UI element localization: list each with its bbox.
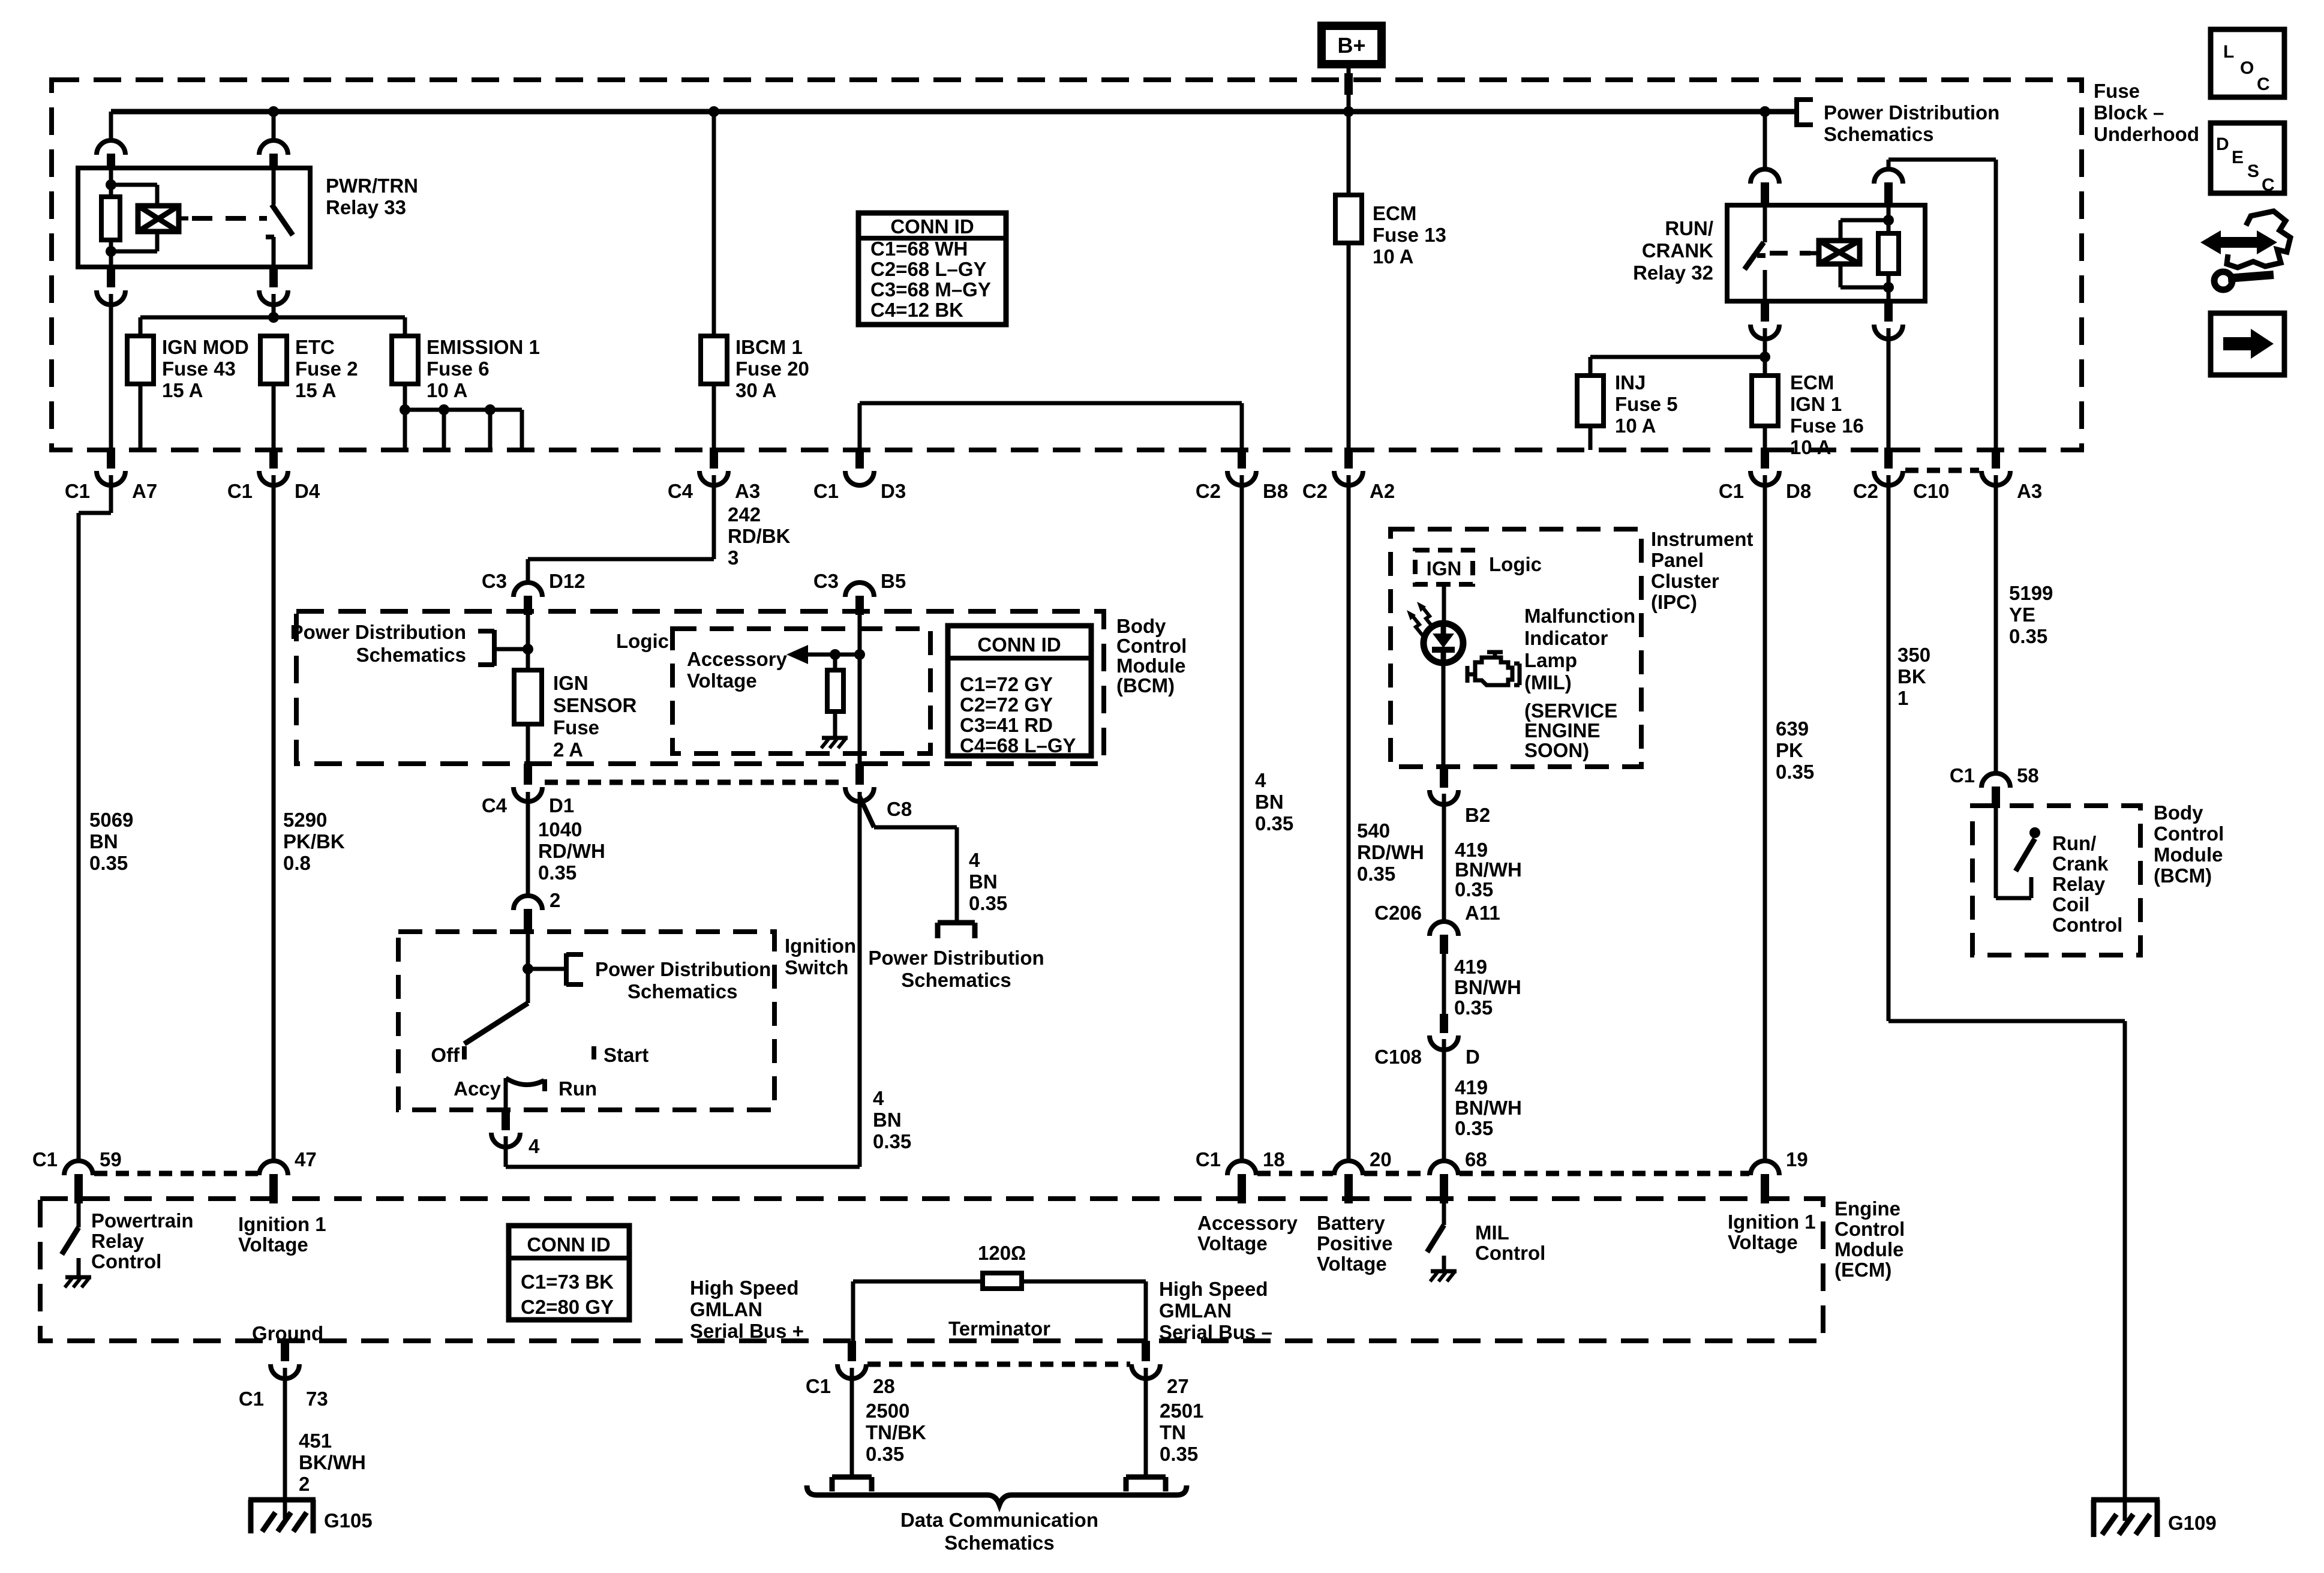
svg-text:C1=72 GY: C1=72 GY	[960, 673, 1053, 695]
wire 2501 TN 0.35	[1144, 1368, 1148, 1476]
svg-text:CONN ID: CONN ID	[527, 1233, 610, 1256]
svg-text:Power Distribution: Power Distribution	[1824, 101, 1999, 124]
svg-text:Fuse 5: Fuse 5	[1615, 393, 1678, 415]
svg-text:Schematics: Schematics	[356, 644, 466, 666]
body control module dashed box	[296, 611, 1104, 764]
svg-text:2501: 2501	[1160, 1400, 1203, 1422]
svg-text:C3: C3	[482, 570, 507, 592]
svg-text:Power Distribution: Power Distribution	[595, 958, 771, 980]
svg-text:Schematics: Schematics	[901, 969, 1011, 991]
fuse IGN MOD Fuse 43	[139, 317, 143, 336]
svg-text:2: 2	[550, 889, 560, 911]
svg-text:D3: D3	[881, 480, 906, 502]
wire relay33 coil leg upper	[109, 168, 113, 197]
svg-text:Run: Run	[559, 1077, 597, 1100]
wire D8 to ECM 19 (639 PK)	[1763, 475, 1767, 1161]
svg-text:(ECM): (ECM)	[1834, 1259, 1891, 1281]
connector C2/A2	[1344, 448, 1353, 469]
svg-text:A2: A2	[1370, 480, 1395, 502]
connector ECM 47	[272, 1161, 276, 1162]
svg-text:C1: C1	[1196, 1148, 1221, 1170]
svg-text:Voltage: Voltage	[1728, 1231, 1798, 1253]
svg-text:BN: BN	[873, 1109, 902, 1131]
connector C2/C10	[1884, 448, 1893, 469]
fuse EMISSION 1 Fuse 6	[403, 317, 407, 336]
wire comb drops	[403, 410, 407, 450]
svg-text:S: S	[2247, 161, 2259, 181]
svg-text:Accessory: Accessory	[687, 648, 788, 670]
svg-text:GMLAN: GMLAN	[1159, 1299, 1232, 1322]
svg-text:0.35: 0.35	[1455, 1117, 1493, 1139]
svg-text:Ignition: Ignition	[785, 935, 856, 957]
svg-text:Control: Control	[91, 1250, 161, 1272]
connector ECM C1/18	[1240, 1161, 1244, 1162]
svg-text:0.35: 0.35	[1357, 863, 1395, 885]
svg-text:(BCM): (BCM)	[1116, 674, 1175, 697]
svg-text:30 A: 30 A	[735, 379, 776, 401]
svg-text:BN: BN	[89, 830, 118, 852]
wire relay33 coil leg lower	[109, 240, 113, 267]
svg-text:C4=68 L–GY: C4=68 L–GY	[960, 734, 1076, 757]
connector row dots ECM right	[1257, 1171, 1333, 1176]
svg-text:CRANK: CRANK	[1642, 239, 1713, 262]
off-page pointer Power Distribution Schematics (bus)	[1794, 97, 1799, 127]
switch run/crank coil driver	[1994, 808, 1998, 898]
contact Start tick	[591, 1046, 596, 1059]
svg-text:0.35: 0.35	[538, 861, 577, 884]
connector C3/B5	[845, 583, 874, 597]
svg-text:Control: Control	[2154, 822, 2224, 845]
svg-text:C1: C1	[65, 480, 90, 502]
wire 451 BK/WH 2	[283, 1368, 287, 1499]
svg-text:B+: B+	[1337, 33, 1365, 58]
svg-text:Relay: Relay	[91, 1230, 145, 1252]
connector relay32 bottom-left	[1761, 301, 1769, 322]
svg-text:Relay 32: Relay 32	[1633, 262, 1713, 284]
fuse IGN SENSOR Fuse 2A	[514, 670, 542, 724]
node B5 wire junction	[854, 649, 865, 660]
svg-text:0.35: 0.35	[89, 852, 128, 874]
connector ECM 19	[1763, 1161, 1767, 1162]
svg-text:2: 2	[299, 1473, 310, 1495]
ground powertrain relay driver	[77, 1258, 81, 1276]
svg-text:Lamp: Lamp	[1524, 649, 1577, 671]
svg-text:1: 1	[1897, 687, 1908, 709]
svg-text:L: L	[2223, 42, 2234, 62]
svg-text:C206: C206	[1374, 902, 1422, 924]
svg-text:C1: C1	[806, 1375, 831, 1397]
ground G105	[248, 1497, 316, 1503]
svg-text:Fuse 13: Fuse 13	[1373, 224, 1446, 246]
svg-text:C1: C1	[1950, 764, 1975, 786]
wire IGN SENSOR feed	[526, 615, 530, 670]
svg-text:ETC: ETC	[295, 336, 335, 358]
svg-text:YE: YE	[2009, 604, 2035, 626]
resistor BCM logic pull	[833, 655, 837, 670]
svg-text:Serial Bus +: Serial Bus +	[690, 1320, 804, 1342]
connector C1/D3	[855, 448, 864, 469]
svg-text:0.35: 0.35	[1454, 996, 1493, 1019]
engine icon (MIL)	[1475, 658, 1512, 685]
svg-text:C4: C4	[482, 794, 508, 816]
svg-text:Powertrain: Powertrain	[91, 1209, 194, 1232]
svg-text:A11: A11	[1465, 902, 1500, 924]
svg-text:Control: Control	[1116, 635, 1187, 657]
svg-text:Logic: Logic	[1489, 553, 1542, 575]
stub B+ border crossing	[1344, 73, 1353, 95]
svg-text:Schematics: Schematics	[1824, 123, 1933, 145]
svg-text:0.35: 0.35	[2009, 625, 2047, 647]
svg-text:CONN ID: CONN ID	[890, 215, 974, 238]
svg-text:C1: C1	[239, 1388, 264, 1410]
connector B2	[1440, 767, 1448, 788]
svg-text:Cluster: Cluster	[1651, 570, 1719, 592]
svg-text:ENGINE: ENGINE	[1524, 719, 1601, 742]
svg-text:PK/BK: PK/BK	[283, 830, 345, 852]
icon arrow box	[2211, 313, 2284, 375]
connector 4 (ignition switch)	[502, 1109, 510, 1130]
wire 5069 BN 0.35	[109, 475, 113, 513]
svg-text:639: 639	[1776, 718, 1809, 740]
svg-text:68: 68	[1465, 1148, 1487, 1170]
svg-text:B2: B2	[1465, 804, 1490, 826]
connector ECM 27	[1142, 1341, 1150, 1361]
wire ignition 4 down	[504, 1136, 508, 1167]
fuse ETC Fuse 2	[260, 336, 287, 384]
svg-text:Control: Control	[2052, 914, 2122, 936]
svg-text:27: 27	[1167, 1375, 1189, 1397]
svg-text:IGN: IGN	[1427, 557, 1462, 580]
svg-text:BK: BK	[1897, 665, 1926, 688]
svg-text:Body: Body	[1116, 615, 1166, 637]
node relay32 coil top	[1883, 215, 1894, 226]
icon schematic arrow and wrench	[2200, 230, 2221, 254]
svg-text:4: 4	[529, 1135, 540, 1157]
svg-text:Panel: Panel	[1651, 549, 1704, 571]
svg-text:ECM: ECM	[1373, 202, 1416, 224]
svg-text:Accessory: Accessory	[1197, 1212, 1298, 1234]
svg-text:Data Communication: Data Communication	[900, 1509, 1098, 1531]
svg-text:Ignition 1: Ignition 1	[1728, 1211, 1816, 1233]
contact Off tick	[462, 1046, 467, 1059]
svg-text:451: 451	[299, 1430, 332, 1452]
svg-text:Schematics: Schematics	[627, 980, 737, 1002]
wire fuse block internal bus D3-B8	[858, 403, 862, 450]
arrow accessory voltage	[786, 645, 808, 664]
ground MIL driver	[1442, 1256, 1446, 1270]
svg-text:Run/: Run/	[2052, 832, 2096, 854]
svg-text:O: O	[2240, 58, 2254, 78]
svg-text:0.35: 0.35	[969, 892, 1007, 914]
connector 2 (ignition switch)	[514, 896, 542, 910]
connector C206/A11	[1430, 921, 1458, 936]
off-page pointer Power Distribution Schematics (C8)	[938, 920, 975, 926]
svg-text:58: 58	[2017, 764, 2039, 786]
svg-text:C2=80 GY: C2=80 GY	[521, 1296, 614, 1318]
svg-text:419: 419	[1454, 956, 1487, 978]
svg-text:Fuse 6: Fuse 6	[427, 358, 490, 380]
svg-text:C1: C1	[227, 480, 253, 502]
node comb 2	[439, 404, 449, 415]
node relay32 coil bottom	[1883, 282, 1894, 293]
wire 5290 PK/BK 0.8	[272, 475, 276, 1161]
node IGN SENSOR tap	[523, 644, 533, 655]
svg-text:Schematics: Schematics	[944, 1532, 1054, 1554]
fuse INJ Fuse 5	[1589, 357, 1593, 376]
svg-text:C1: C1	[813, 480, 839, 502]
wire relay33 switch contact tick	[266, 235, 274, 239]
connector row dots ECM bottom	[867, 1362, 1130, 1367]
svg-text:C2=72 GY: C2=72 GY	[960, 694, 1053, 716]
node bus-B+	[1343, 106, 1354, 117]
off-page pointer data bus +	[832, 1475, 872, 1480]
svg-text:Module: Module	[1834, 1238, 1903, 1260]
svg-text:4: 4	[1255, 769, 1266, 791]
svg-text:C10: C10	[1913, 480, 1950, 502]
svg-text:C2: C2	[1196, 480, 1221, 502]
svg-text:Voltage: Voltage	[1197, 1232, 1268, 1254]
connector relay32 top-left	[1763, 112, 1767, 169]
svg-text:Off: Off	[431, 1044, 460, 1066]
node fuse feed junction	[268, 312, 279, 323]
coil relay32 winding (box with X)	[1810, 251, 1819, 256]
wire INJ fuse feed	[1590, 355, 1765, 359]
contact wiper Accy-Run arc	[506, 1078, 544, 1085]
node bus-relay32	[1759, 106, 1770, 117]
CONN ID table fuse block	[858, 213, 1006, 325]
svg-text:IGN: IGN	[553, 672, 588, 694]
wire relay32 coil bottom branch	[1839, 264, 1843, 287]
LED flash arrows	[1422, 607, 1433, 628]
connector relay33 bottom-left	[107, 267, 115, 287]
wire relay33 coil to actuator stub	[179, 217, 188, 221]
svg-text:2 A: 2 A	[553, 739, 583, 761]
svg-text:BN: BN	[969, 870, 998, 893]
icon DESC box	[2211, 123, 2284, 193]
svg-text:Positive: Positive	[1317, 1232, 1393, 1254]
svg-text:High Speed: High Speed	[690, 1277, 799, 1299]
connector relay32 top-right	[1887, 160, 1891, 169]
svg-text:Module: Module	[1116, 655, 1185, 677]
engine control module dashed box	[40, 1199, 1823, 1341]
svg-text:18: 18	[1263, 1148, 1285, 1170]
wire relay33 switch common	[272, 168, 276, 205]
off-page pointer Power Distribution Schematics (ign)	[528, 967, 566, 971]
svg-text:Power Distribution: Power Distribution	[290, 621, 466, 643]
svg-text:Underhood: Underhood	[2094, 123, 2199, 145]
wire GMLAN bus + drop	[851, 1281, 855, 1341]
svg-text:10 A: 10 A	[1615, 415, 1656, 437]
LED MIL lamp	[1424, 623, 1463, 663]
switch relay33 contact blade	[272, 205, 293, 235]
svg-text:BN/WH: BN/WH	[1455, 1097, 1522, 1119]
icon LOC box	[2211, 29, 2284, 97]
svg-text:0.35: 0.35	[1255, 812, 1293, 834]
svg-text:C3: C3	[813, 570, 839, 592]
svg-text:Voltage: Voltage	[238, 1233, 308, 1256]
off-page pointer data bus -	[1126, 1475, 1166, 1480]
fuse IBCM 1 Fuse 20	[712, 112, 716, 336]
connector ECM C1/73 ground	[281, 1341, 289, 1361]
connector bar BCM bottom dotted	[545, 780, 842, 785]
wire relay32 actuator dash line	[1770, 251, 1810, 256]
connector C1/58	[1981, 773, 2010, 788]
svg-text:Body: Body	[2154, 801, 2203, 824]
svg-text:Logic: Logic	[616, 630, 669, 652]
svg-text:Crank: Crank	[2052, 852, 2109, 875]
wire IGN SENSOR fuse to C4/D1	[526, 724, 530, 764]
wire relay32 coil feed to A3	[1888, 158, 1996, 162]
svg-text:E: E	[2232, 148, 2244, 167]
svg-text:G109: G109	[2168, 1512, 2217, 1534]
svg-text:Control: Control	[1475, 1242, 1545, 1264]
svg-text:Relay 33: Relay 33	[326, 196, 406, 218]
svg-text:CONN ID: CONN ID	[977, 634, 1061, 656]
connector row dots ECM left	[94, 1171, 258, 1176]
svg-text:Indicator: Indicator	[1524, 627, 1608, 649]
svg-text:C1: C1	[1719, 480, 1744, 502]
svg-text:28: 28	[873, 1375, 895, 1397]
svg-text:RUN/: RUN/	[1665, 217, 1713, 239]
connector C1/D8	[1761, 448, 1769, 469]
svg-text:0.35: 0.35	[1455, 878, 1493, 900]
svg-text:Control: Control	[1834, 1218, 1905, 1240]
svg-text:C2: C2	[1302, 480, 1328, 502]
svg-text:0.35: 0.35	[873, 1130, 911, 1152]
svg-text:C3=68 M–GY: C3=68 M–GY	[870, 278, 991, 301]
svg-text:Switch: Switch	[785, 956, 848, 978]
svg-text:C1=68 WH: C1=68 WH	[870, 238, 968, 260]
svg-text:D12: D12	[549, 570, 585, 592]
wire IGN to MIL lamp	[1442, 584, 1446, 624]
wire emission fuse comb rail	[405, 408, 522, 412]
svg-text:G105: G105	[324, 1509, 373, 1532]
connector bar C10-A3 dotted	[1905, 468, 1979, 473]
wire C108 to ECM 68 (419 BN/WH)	[1442, 1039, 1446, 1161]
brace data communication	[807, 1485, 1187, 1505]
svg-text:RD/WH: RD/WH	[1357, 841, 1424, 863]
svg-text:BN/WH: BN/WH	[1454, 976, 1521, 998]
svg-text:C: C	[2262, 175, 2275, 195]
relay K33 PWR/TRN box	[78, 168, 310, 267]
wire C8 to ignition switch 4	[858, 792, 862, 1167]
svg-text:Coil: Coil	[2052, 893, 2089, 915]
wire relay33 actuator dash line	[192, 216, 267, 221]
svg-text:540: 540	[1357, 819, 1390, 842]
svg-text:2500: 2500	[866, 1400, 909, 1422]
svg-text:Serial Bus –: Serial Bus –	[1159, 1321, 1272, 1343]
svg-text:47: 47	[295, 1148, 317, 1170]
connector C1/D4	[269, 448, 278, 469]
svg-text:Block –: Block –	[2094, 101, 2164, 124]
svg-text:EMISSION 1: EMISSION 1	[427, 336, 540, 358]
svg-text:TN: TN	[1160, 1421, 1186, 1443]
svg-text:0.35: 0.35	[1160, 1443, 1198, 1465]
wire C8 branch to off-page	[860, 797, 874, 827]
wire A2 to ECM 20 (540 RD/WH)	[1347, 475, 1351, 1161]
svg-text:Start: Start	[603, 1044, 648, 1066]
svg-text:D1: D1	[549, 794, 574, 816]
svg-text:D8: D8	[1786, 480, 1811, 502]
switch ignition blade	[464, 1003, 528, 1044]
connector C8	[855, 764, 864, 785]
svg-text:Fuse 43: Fuse 43	[162, 358, 236, 380]
wire battery bus	[111, 109, 1797, 115]
svg-text:RD/WH: RD/WH	[538, 840, 605, 862]
svg-text:MIL: MIL	[1475, 1221, 1509, 1244]
svg-text:1040: 1040	[538, 818, 582, 840]
ignition switch dashed box	[398, 932, 774, 1110]
connector ECM C1/28	[848, 1341, 856, 1361]
switch MIL driver	[1442, 1199, 1446, 1225]
node bus-relay33 right leg	[268, 106, 279, 117]
svg-text:Fuse: Fuse	[553, 716, 599, 739]
svg-text:10 A: 10 A	[427, 379, 467, 401]
wire relay32 coil top branch	[1839, 220, 1843, 241]
svg-text:SOON): SOON)	[1524, 739, 1589, 761]
node relay33 coil bottom	[106, 246, 116, 257]
switch relay32 contact blade	[1744, 242, 1764, 269]
wire B8 to ECM 18 (4 BN 0.35)	[1240, 475, 1244, 1161]
svg-text:Accy: Accy	[454, 1077, 502, 1100]
svg-text:C8: C8	[887, 798, 912, 820]
node ignition bracket tap	[523, 963, 533, 974]
wire 1040 RD/WH	[526, 792, 530, 896]
svg-text:15 A: 15 A	[295, 379, 336, 401]
svg-text:B5: B5	[881, 570, 906, 592]
node comb 3	[485, 404, 496, 415]
node relay33 coil top	[106, 179, 116, 190]
svg-text:0.35: 0.35	[866, 1443, 904, 1465]
svg-text:SENSOR: SENSOR	[553, 694, 637, 716]
connector C3/D12	[514, 583, 542, 597]
svg-text:5290: 5290	[283, 809, 327, 831]
relay K32 RUN/CRANK box	[1727, 205, 1925, 301]
B+ battery terminal box	[1322, 26, 1382, 64]
CONN ID table ECM	[509, 1226, 629, 1320]
svg-text:5199: 5199	[2009, 582, 2053, 604]
svg-text:C3=41 RD: C3=41 RD	[960, 714, 1053, 736]
node resistor branch	[830, 649, 840, 660]
svg-text:Power Distribution: Power Distribution	[868, 947, 1044, 969]
svg-text:419: 419	[1455, 1076, 1488, 1098]
svg-text:Battery: Battery	[1317, 1212, 1385, 1234]
svg-text:Fuse 16: Fuse 16	[1790, 415, 1864, 437]
svg-text:A7: A7	[132, 480, 157, 502]
wire 350 BK 1 to G109	[1887, 475, 1891, 1021]
svg-text:73: 73	[306, 1388, 328, 1410]
svg-text:19: 19	[1786, 1148, 1808, 1170]
svg-text:PWR/TRN: PWR/TRN	[326, 175, 418, 197]
svg-text:ECM: ECM	[1790, 371, 1834, 394]
connector relay32 bottom-right	[1884, 301, 1893, 322]
svg-text:Malfunction: Malfunction	[1524, 605, 1635, 627]
svg-text:419: 419	[1455, 839, 1488, 861]
svg-text:Engine: Engine	[1834, 1197, 1900, 1220]
svg-text:Instrument: Instrument	[1651, 528, 1753, 550]
svg-text:Voltage: Voltage	[1317, 1253, 1387, 1275]
svg-text:20: 20	[1370, 1148, 1392, 1170]
wire ignition switch common	[526, 934, 530, 1003]
svg-text:242: 242	[728, 503, 761, 526]
svg-text:(IPC): (IPC)	[1651, 591, 1697, 613]
wire B5 through BCM	[858, 615, 862, 764]
svg-text:350: 350	[1897, 644, 1930, 666]
contact Run tick	[542, 1079, 547, 1091]
node INJ fuse junction	[1759, 352, 1770, 362]
connector ECM 68	[1442, 1161, 1446, 1162]
wire relay33 switch output	[272, 237, 276, 267]
